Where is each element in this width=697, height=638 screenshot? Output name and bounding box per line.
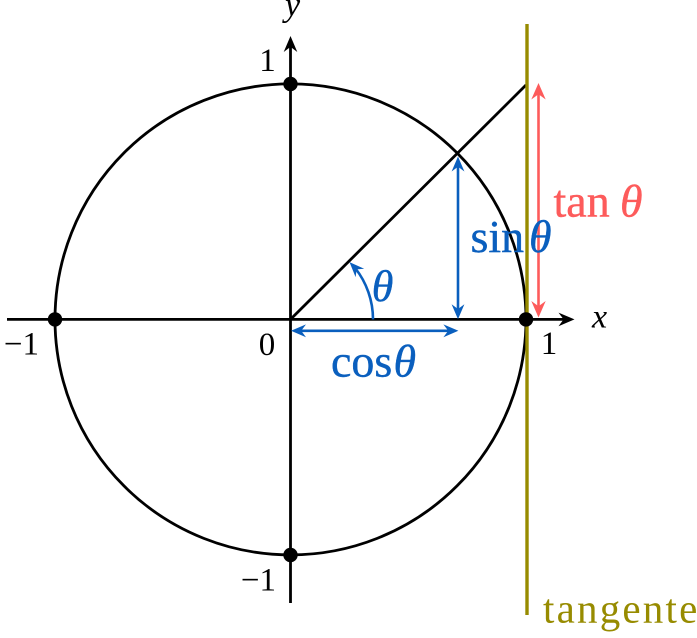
y-axis <box>284 36 298 603</box>
cos arrow (blue, double-headed) <box>291 324 458 337</box>
x-axis <box>7 313 575 327</box>
svg-text:1: 1 <box>541 326 558 362</box>
svg-text:θ: θ <box>372 262 394 311</box>
label cos theta <box>331 336 416 387</box>
unit circle <box>55 84 526 555</box>
theta angle arc (blue) <box>350 262 374 319</box>
tan arrow (red, double-headed) <box>531 83 545 318</box>
label sin theta <box>471 211 552 262</box>
dot at (0,1) <box>283 77 297 91</box>
svg-text:tangente: tangente <box>543 586 697 632</box>
svg-text:tan: tan <box>554 176 610 227</box>
svg-text:0: 0 <box>259 327 276 363</box>
svg-text:y: y <box>282 0 301 24</box>
dot at (-1,0) <box>48 312 62 326</box>
dot at (1,0) <box>519 312 533 326</box>
svg-text:cos: cos <box>331 336 392 387</box>
svg-text:θ: θ <box>620 176 643 227</box>
dot at (0,-1) <box>283 548 297 562</box>
svg-text:θ: θ <box>394 336 417 387</box>
sin arrow (blue, double-headed) <box>452 157 465 320</box>
svg-text:−1: −1 <box>4 327 39 363</box>
tangent line (olive, x=1) <box>525 24 528 615</box>
svg-text:sin: sin <box>471 211 525 262</box>
radius line at 45 degrees <box>291 85 527 319</box>
label tan theta <box>554 176 643 227</box>
svg-text:θ: θ <box>529 211 552 262</box>
svg-text:x: x <box>591 299 607 336</box>
svg-text:−1: −1 <box>241 563 276 599</box>
svg-text:1: 1 <box>259 43 276 79</box>
